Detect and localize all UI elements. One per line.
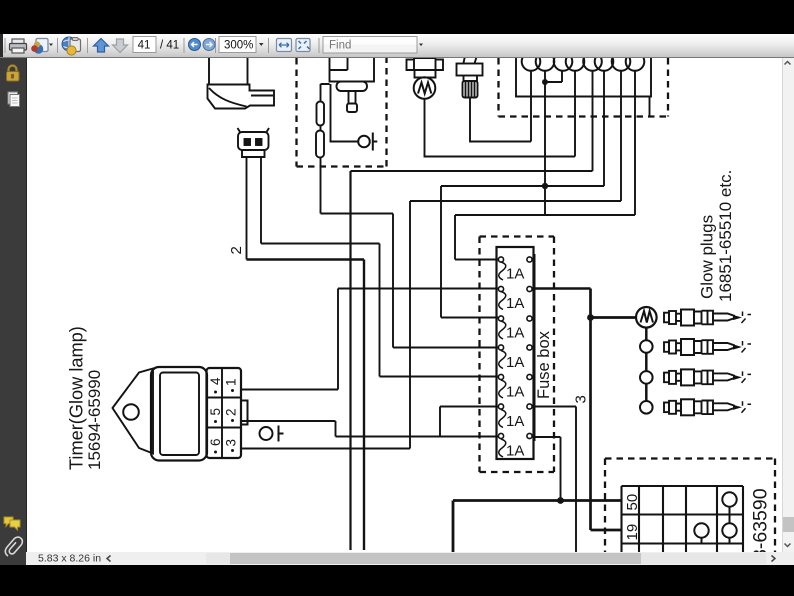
wire timer pin3	[241, 448, 410, 450]
back round button	[189, 39, 201, 51]
fusible link F2	[316, 131, 324, 158]
wire drop x603	[603, 71, 605, 186]
timer name text	[67, 326, 105, 470]
timer pin labels	[208, 377, 239, 454]
oil sensor B	[457, 56, 483, 98]
heavy vertical wire 3	[591, 289, 623, 531]
export icon	[31, 39, 53, 54]
chain node 1	[640, 340, 653, 353]
long vertical V2	[363, 260, 365, 551]
bus y215 right segment	[455, 215, 635, 260]
glow plug 4	[664, 399, 751, 415]
grid terminal pin R1	[722, 492, 736, 523]
svg-text:300%: 300%	[224, 40, 253, 52]
glow plugs label	[698, 170, 736, 302]
wire timer pin1	[241, 289, 498, 390]
up arrow (blue)	[94, 39, 109, 53]
long vertical V1	[349, 171, 351, 550]
timer mounting tab	[113, 369, 154, 454]
wire solenoid left drop	[321, 84, 330, 214]
timer connector block	[207, 368, 248, 458]
wire drop x544 to junction	[544, 71, 546, 215]
wire fuse2 to bus 3	[534, 287, 591, 289]
connector CN1	[238, 128, 270, 157]
ground terminal T1	[260, 426, 284, 442]
bus y214 left segment	[321, 214, 499, 348]
heavy wire to vertical V2	[247, 258, 365, 260]
grid terminal pin R2	[722, 523, 736, 543]
chain node 2	[640, 371, 653, 384]
bus y186	[441, 186, 604, 318]
starter solenoid	[330, 58, 375, 112]
glow bus chain	[645, 328, 648, 402]
timer body	[151, 367, 207, 461]
svg-text:41: 41	[138, 40, 151, 52]
wire sensor A	[425, 71, 576, 157]
sidebar: comments icon	[4, 517, 20, 530]
sidebar: paperclip icon	[5, 537, 22, 556]
fuse value labels 1A	[506, 266, 524, 460]
sidebar: pages icon	[8, 92, 20, 107]
fuse terminals right	[527, 257, 532, 439]
wire 2 run	[261, 244, 498, 377]
fuse box dashed border	[480, 237, 555, 473]
chain node 3	[640, 401, 653, 414]
grid terminal pin R3	[694, 523, 708, 543]
svg-text:/ 41: / 41	[160, 40, 179, 52]
junction dot C	[557, 497, 564, 504]
fuse bus bar right	[533, 254, 536, 441]
glow plug 1	[664, 310, 751, 326]
junction dot B	[587, 314, 594, 321]
thermo sensor A	[407, 58, 444, 99]
printer icon	[10, 39, 27, 53]
wire stub x648	[649, 97, 651, 117]
toolbar separators	[5, 38, 319, 53]
wire fuse7 down	[534, 437, 561, 501]
zoom box	[219, 37, 256, 53]
wire to glow lamp	[591, 316, 637, 319]
wire fuse6 down	[534, 407, 576, 553]
find box	[323, 37, 417, 54]
junction dot D	[542, 79, 548, 85]
fit page icon	[296, 39, 310, 52]
fuse terminals left	[498, 257, 503, 439]
wire CN1 pin-b down	[260, 157, 262, 244]
down arrow (gray)	[113, 39, 128, 53]
battery terminal B1	[331, 84, 378, 151]
globe-copy icon	[62, 37, 81, 55]
top-right connector box	[516, 58, 651, 97]
wire timer pin2	[241, 421, 498, 437]
fuse wavy edges	[499, 262, 506, 457]
svg-text:Find: Find	[329, 40, 351, 52]
page number box	[133, 37, 156, 53]
glow plug 2	[664, 339, 751, 355]
wire branch to fuse6	[440, 407, 498, 437]
dashed box D1	[297, 58, 387, 167]
svg-text:5.83 x 8.26 in: 5.83 x 8.26 in	[38, 553, 101, 565]
dashed box D2 top right	[499, 58, 669, 117]
connector circles row	[522, 52, 645, 71]
bottom connector grid	[622, 486, 744, 552]
fit width icon	[277, 39, 292, 52]
connector jumper wire	[545, 71, 562, 82]
fuse strip body	[497, 247, 534, 459]
bus y201	[410, 201, 621, 449]
wire CN1 pin-a down	[246, 157, 248, 260]
wire sensor B	[470, 71, 531, 142]
junction dot A	[542, 183, 548, 189]
glow plug 3	[664, 369, 751, 385]
glow indicator lamp	[636, 307, 657, 328]
wire drop x634	[634, 71, 636, 215]
fusible link F1	[317, 102, 325, 126]
wire drop x620	[620, 71, 622, 201]
heavy wire to terminal 50	[453, 501, 622, 553]
sidebar: lock icon	[7, 66, 20, 82]
key switch	[208, 58, 275, 109]
bottom connector dashed box	[605, 459, 775, 553]
bus y171	[351, 71, 593, 171]
